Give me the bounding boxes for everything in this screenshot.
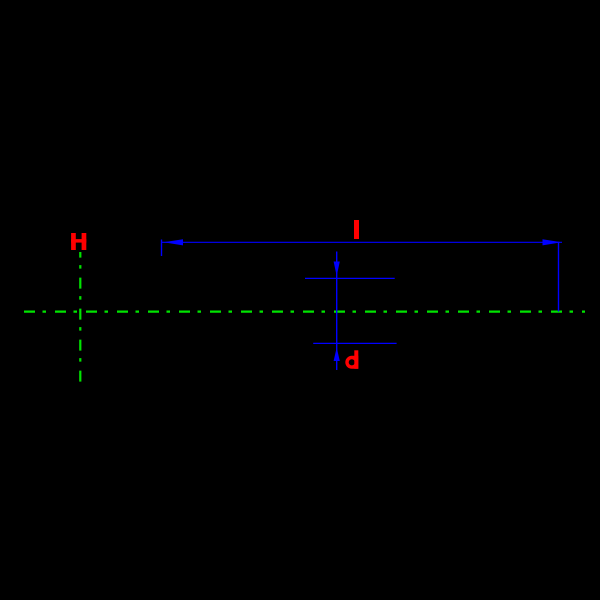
down arrow: [334, 262, 340, 277]
label H (red): [71, 233, 86, 250]
dimension d vertical line: [336, 252, 338, 371]
left arrow: [164, 239, 184, 245]
dimension line l (blue horizontal): [162, 241, 563, 243]
d top extent line: [305, 277, 395, 279]
d bottom extent line: [313, 342, 396, 344]
right arrow: [543, 239, 562, 245]
vertical centerline (green dash-dot): [79, 252, 81, 383]
left extension tick: [161, 240, 163, 257]
up arrow: [334, 348, 340, 362]
label l (red): [354, 220, 359, 239]
label d (red): [345, 350, 358, 369]
horizontal centerline (green dash-dot): [24, 311, 585, 313]
right extension line down to centerline: [558, 242, 560, 312]
